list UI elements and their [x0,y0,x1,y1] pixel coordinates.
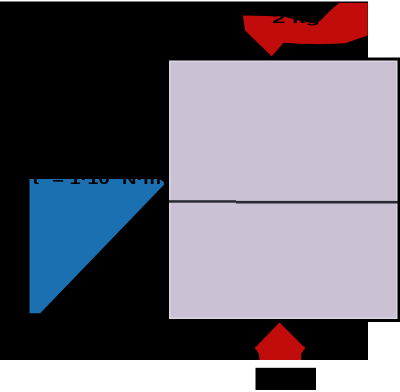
divider line between upper and lower block (right segment) [236,201,398,204]
black label box below figure [256,368,317,390]
block outer black border [166,58,400,323]
svg-text:τ¹ = 1·10² N·m: τ¹ = 1·10² N·m [31,171,161,188]
block lavender fill [171,62,397,318]
block light rim [169,61,398,320]
svg-text:2 kg: 2 kg [272,12,320,26]
bottom force arrow (red, pointing up at block bottom) [255,322,306,360]
top force arrow (red, curved, pointing down at block) [243,3,368,56]
divider line between upper and lower block (left segment) [169,200,236,203]
wedge (blue triangle) [30,179,165,313]
